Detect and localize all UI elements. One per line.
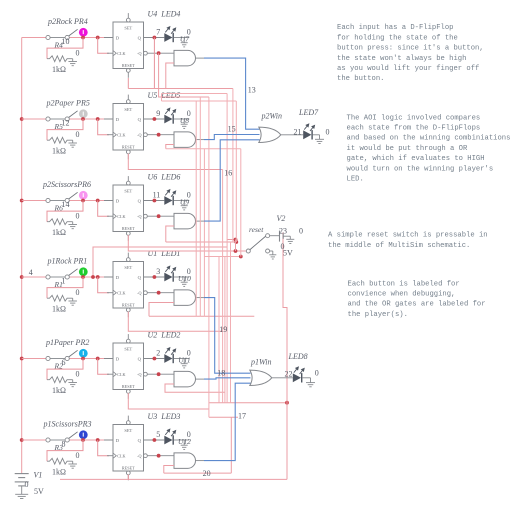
svg-text:12: 12 (62, 118, 70, 127)
LED7 (303, 130, 311, 139)
D flip-flop U1 (113, 253, 144, 318)
svg-text:CLK: CLK (117, 214, 125, 219)
AND gate row U3 (174, 453, 195, 469)
ground below resistor R1 (72, 298, 74, 301)
pushbutton p1Scissors (50, 439, 65, 441)
key indicator 6 (79, 191, 88, 200)
LED U12 (LED3) (164, 436, 172, 445)
wire bus horizontal net 148 (166, 148, 241, 150)
svg-text:U8: U8 (180, 116, 189, 125)
wire p1Win output (272, 377, 293, 379)
wire Q output row U6 (144, 200, 165, 202)
svg-text:-Q: -Q (137, 214, 141, 219)
wire button net row U4 (22, 37, 46, 39)
ground V1 (15, 493, 28, 495)
annotation text block 2 (347, 114, 511, 183)
LED U9 (LED6) (164, 196, 172, 205)
wire LED cathode U12 (174, 439, 190, 441)
svg-text:0: 0 (76, 48, 80, 57)
svg-text:20: 20 (203, 469, 211, 478)
svg-text:the button.: the button. (337, 75, 384, 83)
pushbutton p2Paper (50, 118, 65, 120)
svg-text:1kΩ: 1kΩ (52, 147, 66, 156)
pushbutton p1Rock (50, 276, 65, 278)
svg-text:CLK: CLK (117, 133, 125, 138)
ground LED8 (306, 382, 315, 384)
svg-text:13: 13 (248, 86, 256, 95)
svg-text:U3 LED3: U3 LED3 (148, 412, 181, 421)
svg-text:the state won't always be high: the state won't always be high (337, 55, 466, 63)
svg-text:5: 5 (156, 430, 160, 439)
svg-text:U12: U12 (178, 437, 191, 446)
wire Qbar1 cross-connect (159, 53, 209, 97)
svg-text:p1ScissorsPR3: p1ScissorsPR3 (43, 419, 92, 428)
wire reset row1 to bus (128, 88, 233, 90)
wire reset row5 to bus (128, 393, 209, 409)
wire Qbar to AND gate row U1 (147, 292, 174, 294)
svg-text:0: 0 (76, 451, 80, 460)
svg-text:15: 15 (228, 124, 236, 133)
wire bus horizontal net 101 (162, 100, 237, 102)
svg-text:p1Win: p1Win (250, 357, 271, 366)
wire bus vertical f (222, 170, 224, 403)
Qbar output bubble U4 (144, 51, 148, 55)
LED U8 (LED5) (164, 115, 172, 124)
D flip-flop U2 (113, 334, 144, 399)
svg-text:U4 LED4: U4 LED4 (148, 10, 181, 19)
Qbar output bubble U3 (144, 454, 148, 458)
wire Q output row U3 (144, 439, 165, 441)
wire CLK drop row U6 (98, 201, 109, 217)
svg-text:21: 21 (294, 128, 302, 137)
svg-text:RESET: RESET (122, 145, 135, 150)
wire to pulldown resistor R2 (47, 359, 83, 380)
svg-text:Each button is labeled for: Each button is labeled for (348, 280, 460, 288)
resistor R3 1k (47, 458, 73, 464)
wire button net row U2 (22, 358, 46, 360)
wire net 20 vertical (230, 417, 232, 473)
svg-text:0: 0 (76, 288, 80, 297)
wire Q output row U4 (144, 37, 165, 39)
wire p2Win output (281, 134, 303, 136)
svg-text:LED7: LED7 (298, 108, 319, 117)
svg-text:16: 16 (224, 169, 232, 178)
svg-text:p1Rock PR1: p1Rock PR1 (47, 256, 88, 265)
ground below resistor R6 (72, 222, 74, 225)
wire net 20 horizontal (164, 472, 232, 474)
wire Q output row U2 (144, 358, 165, 360)
svg-text:U11: U11 (178, 356, 190, 365)
wire CLK drop row U4 (98, 38, 109, 54)
svg-text:23: 23 (279, 226, 287, 235)
svg-text:CLK: CLK (117, 372, 125, 377)
node junction dots row U4 (81, 36, 85, 40)
pushbutton p2Rock (50, 37, 65, 39)
svg-text:for holding the state of the: for holding the state of the (337, 34, 458, 42)
wire V2 to ground (283, 235, 290, 237)
Qbar output bubble U5 (144, 133, 148, 137)
wire CLK drop row U3 (98, 440, 109, 456)
svg-text:U9: U9 (180, 198, 189, 207)
wire button net row U1 (22, 276, 46, 278)
svg-text:7: 7 (156, 27, 160, 36)
OR gate p2Win (259, 127, 281, 142)
svg-text:RESET: RESET (122, 466, 135, 471)
svg-text:The AOI logic involved compare: The AOI logic involved compares (347, 114, 481, 122)
svg-text:LED8: LED8 (288, 352, 308, 361)
svg-text:0: 0 (299, 226, 303, 235)
Qbar output bubble U1 (144, 291, 148, 295)
svg-text:as you would lift your finger: as you would lift your finger off (337, 65, 479, 73)
svg-text:the player(s).: the player(s). (348, 311, 408, 319)
OR gate p1Win (250, 370, 272, 385)
svg-text:U1 LED1: U1 LED1 (148, 249, 181, 258)
wire Qbar to AND gate row U3 (147, 455, 174, 457)
svg-text:and the OR gates are labeled f: and the OR gates are labeled for (348, 301, 486, 309)
svg-text:reset: reset (249, 225, 264, 234)
wire LED cathode U11 (174, 358, 190, 360)
svg-text:11: 11 (153, 190, 161, 199)
ground below resistor R2 (72, 380, 74, 383)
wire net 15 (AND2 out to p2Win) (204, 135, 260, 140)
LED U7 (LED4) (164, 33, 172, 42)
svg-text:CLK: CLK (117, 51, 125, 56)
svg-text:5V: 5V (283, 248, 293, 257)
pushbutton p2Scissors (50, 200, 65, 202)
wire switch NC to ground (270, 250, 273, 252)
svg-text:SET: SET (124, 107, 132, 112)
Qbar output bubble U6 (144, 214, 148, 218)
wire reset bus elbow (227, 239, 235, 241)
wire net 13 (AND1 out to p2Win) (204, 58, 260, 129)
svg-text:1: 1 (62, 276, 66, 285)
svg-text:U6 LED6: U6 LED6 (148, 173, 181, 182)
wire bus vertical c (203, 149, 205, 317)
svg-text:SET: SET (124, 428, 132, 433)
wire reset row2 to bus (128, 154, 222, 170)
D flip-flop U4 (113, 13, 144, 78)
wire net 19 (AND4 out to p1Win) (204, 298, 251, 374)
svg-text:U7: U7 (180, 35, 189, 44)
D flip-flop U6 (113, 176, 144, 241)
ground LED U7 (181, 42, 188, 44)
wire AND5 bottom input feed (165, 384, 225, 392)
wire bus horizontal net 316 (149, 315, 254, 317)
wire net 16 (AND3 out to p2Win) (204, 140, 260, 221)
switch reset (246, 249, 250, 253)
svg-text:0: 0 (76, 369, 80, 378)
AND gate row U1 (174, 290, 195, 306)
wire LED cathode U10 (174, 276, 190, 278)
svg-text:0: 0 (25, 480, 29, 489)
wire AND output row U4 (195, 57, 204, 59)
svg-text:U5 LED5: U5 LED5 (148, 91, 181, 100)
wire bus vertical b (199, 97, 201, 316)
wire bus elbow net 417 (209, 416, 238, 418)
svg-text:Each input has a D-FlipFlop: Each input has a D-FlipFlop (337, 24, 453, 32)
svg-text:it would be put through a OR: it would be put through a OR (347, 145, 468, 153)
node junction dots row U6 (81, 199, 85, 203)
wire to pulldown resistor R1 (47, 277, 83, 298)
wire reset row6 to bus (127, 475, 129, 480)
svg-text:2: 2 (156, 348, 160, 357)
svg-text:V2: V2 (277, 214, 286, 223)
wire AND output row U5 (195, 139, 204, 141)
wire LED8 cathode (302, 377, 310, 379)
key indicator 3 (79, 430, 88, 439)
svg-text:LED.: LED. (347, 176, 364, 184)
ground switch NC (269, 254, 276, 256)
wire AND3 bottom input feed (166, 226, 174, 242)
svg-text:-Q: -Q (137, 291, 141, 296)
wire bus vertical i (230, 242, 232, 403)
wire reset switch feed (235, 240, 237, 252)
wire bus vertical a (195, 101, 197, 316)
LED8 (293, 373, 301, 382)
svg-text:SET: SET (124, 25, 132, 30)
svg-text:convience when debugging,: convience when debugging, (348, 291, 456, 299)
svg-text:p2ScissorsPR6: p2ScissorsPR6 (42, 180, 91, 189)
svg-text:A simple reset switch is press: A simple reset switch is pressable in (328, 232, 488, 240)
ground LED U9 (181, 205, 188, 207)
wire Q output row U5 (144, 118, 165, 120)
svg-text:button press: since it's a but: button press: since it's a button, (337, 45, 484, 53)
wire bus vertical j (232, 89, 234, 243)
svg-text:18: 18 (217, 369, 225, 378)
wire CLK drop row U1 (98, 277, 109, 293)
wire LED cathode U9 (174, 200, 190, 202)
wire bus horizontal net 256 (204, 256, 240, 258)
svg-text:-Q: -Q (137, 51, 141, 56)
svg-text:10: 10 (62, 37, 70, 46)
key indicator 1 (79, 267, 88, 276)
node junction dots row U5 (81, 117, 85, 121)
wire AND output row U6 (195, 220, 204, 222)
annotation text block 3 (328, 232, 488, 250)
wire bus vertical d (208, 97, 210, 417)
svg-text:19: 19 (219, 325, 227, 334)
wire Qbar to AND gate row U2 (147, 373, 174, 375)
wire AND2 bottom input feed (166, 145, 174, 149)
svg-text:RESET: RESET (122, 226, 135, 231)
svg-text:1kΩ: 1kΩ (52, 65, 66, 74)
svg-text:U2 LED2: U2 LED2 (148, 331, 181, 340)
svg-text:SET: SET (124, 188, 132, 193)
wire LED cathode U7 (174, 37, 190, 39)
key indicator 4 (79, 28, 88, 37)
wire Qbar to AND gate row U4 (147, 52, 174, 54)
wire Qbar to AND gate row U5 (147, 134, 174, 136)
ground LED U8 (181, 123, 188, 125)
resistor R2 1k (47, 377, 73, 383)
wire AND output row U1 (195, 297, 204, 299)
AND gate row U4 (174, 50, 195, 66)
svg-text:1kΩ: 1kΩ (52, 305, 66, 314)
wire reset row4 to bus (128, 312, 222, 332)
ground LED7 (315, 138, 324, 140)
ground LED U10 (181, 281, 188, 283)
wire AND6 bottom input feed (164, 466, 174, 474)
svg-text:17: 17 (238, 411, 246, 420)
battery V1 (21, 472, 23, 475)
key indicator 5 (79, 109, 88, 118)
battery V2 (279, 231, 281, 242)
Qbar output bubble U2 (144, 372, 148, 376)
wire to pulldown resistor R4 (47, 38, 83, 59)
wire button net row U3 (22, 439, 46, 441)
svg-text:gate, which if evaluates to HI: gate, which if evaluates to HIGH (347, 155, 485, 163)
svg-text:V1: V1 (34, 471, 43, 480)
svg-text:-Q: -Q (137, 133, 141, 138)
svg-text:4: 4 (29, 268, 33, 277)
ground below resistor R5 (72, 140, 74, 143)
svg-text:3: 3 (156, 267, 160, 276)
svg-text:5V: 5V (34, 487, 44, 496)
svg-text:would turn on the winning play: would turn on the winning player's (347, 165, 494, 173)
wire to pulldown resistor R6 (47, 201, 83, 222)
wire bus horizontal net 93 (162, 93, 228, 95)
wire Q output row U1 (144, 276, 165, 278)
wire button net row U6 (22, 200, 46, 202)
wire bus horizontal net 402 (209, 402, 287, 404)
wire to pulldown resistor R5 (47, 119, 83, 140)
wire AND output row U3 (195, 460, 204, 462)
ground LED U12 (181, 444, 188, 446)
node junction dots row U1 (81, 275, 85, 279)
svg-text:-Q: -Q (137, 372, 141, 377)
AND gate row U2 (174, 371, 195, 387)
wire CLK drop row U2 (98, 359, 109, 375)
wire bus vertical l (240, 149, 242, 257)
ground V2 (286, 238, 294, 240)
svg-text:U10: U10 (178, 274, 191, 283)
wire bus vertical k (235, 101, 237, 242)
svg-text:and based on the winning combi: and based on the winning combiniations (347, 135, 511, 143)
svg-text:0: 0 (76, 211, 80, 220)
wire CLK drop row U5 (98, 119, 109, 135)
LED U11 (LED2) (164, 354, 172, 363)
svg-text:SET: SET (124, 346, 132, 351)
wire bus vertical e (218, 257, 220, 403)
D flip-flop U5 (113, 95, 144, 160)
wire 5V supply rail (21, 38, 23, 473)
ground LED U11 (181, 363, 188, 365)
resistor R5 1k (47, 137, 73, 143)
wire bus vertical g (224, 257, 226, 403)
D flip-flop U3 (113, 416, 144, 481)
svg-text:0: 0 (326, 128, 330, 137)
wire AND4 bottom input feed (149, 303, 174, 317)
node junction dots row U3 (81, 438, 85, 442)
resistor R4 1k (47, 56, 73, 62)
wire LED7 cathode (313, 134, 320, 136)
ground below resistor R4 (72, 59, 74, 62)
svg-text:1kΩ: 1kΩ (52, 468, 66, 477)
svg-text:p2Paper PR5: p2Paper PR5 (46, 98, 90, 107)
svg-text:RESET: RESET (122, 63, 135, 68)
svg-text:1kΩ: 1kΩ (52, 228, 66, 237)
resistor R6 1k (47, 219, 73, 225)
wire to pulldown resistor R3 (47, 440, 83, 461)
svg-text:p2Win: p2Win (261, 112, 282, 121)
annotation text block 4 (348, 280, 486, 319)
wire net 18 (AND5 out to p1Win) (204, 378, 251, 379)
annotation text block 1 (337, 24, 484, 83)
wire reset row3 to switch (128, 235, 246, 251)
svg-text:p2Rock PR4: p2Rock PR4 (47, 17, 88, 26)
svg-text:-Q: -Q (137, 454, 141, 459)
svg-text:CLK: CLK (117, 454, 125, 459)
pushbutton p1Paper (50, 358, 65, 360)
svg-text:SET: SET (124, 265, 132, 270)
svg-text:14: 14 (62, 200, 70, 209)
svg-text:RESET: RESET (122, 303, 135, 308)
key indicator 2 (79, 349, 88, 358)
wire Qbar to AND gate row U6 (147, 215, 174, 217)
wire AND1 bottom input feed (166, 63, 174, 89)
svg-text:6: 6 (62, 358, 66, 367)
LED U10 (LED1) (164, 273, 172, 282)
wire bus horizontal net 242 (166, 241, 237, 243)
svg-text:each state from the D-FlipFlop: each state from the D-FlipFlops (347, 125, 481, 133)
wire button net row U5 (22, 118, 46, 120)
AND gate row U6 (174, 213, 195, 229)
resistor R1 1k (47, 295, 73, 301)
wire AND output row U2 (195, 378, 204, 380)
svg-text:CLK: CLK (117, 291, 125, 296)
wire LED cathode U8 (174, 118, 190, 120)
svg-text:22: 22 (285, 369, 293, 378)
wire net4 vertical to p1Rock (93, 247, 227, 277)
svg-text:1kΩ: 1kΩ (52, 386, 66, 395)
wire Q1 cross-connect (153, 38, 155, 89)
wire right bus vertical with jog (283, 233, 287, 480)
svg-text:the middle of MultiSim schemat: the middle of MultiSim schematic. (328, 242, 470, 250)
wire bus horizontal net 479 (60, 478, 287, 480)
node junction dots row U2 (81, 357, 85, 361)
svg-text:9: 9 (156, 109, 160, 118)
ground below resistor R3 (72, 461, 74, 464)
AND gate row U5 (174, 132, 195, 148)
svg-text:8: 8 (62, 439, 66, 448)
svg-text:0: 0 (315, 369, 319, 378)
wire switch to V2 (270, 235, 280, 237)
wire net 17 (AND6 out to p1Win) (204, 383, 251, 460)
wire bus vertical h (226, 94, 228, 403)
svg-text:RESET: RESET (122, 384, 135, 389)
svg-text:p1Paper PR2: p1Paper PR2 (45, 338, 89, 347)
svg-text:0: 0 (76, 130, 80, 139)
